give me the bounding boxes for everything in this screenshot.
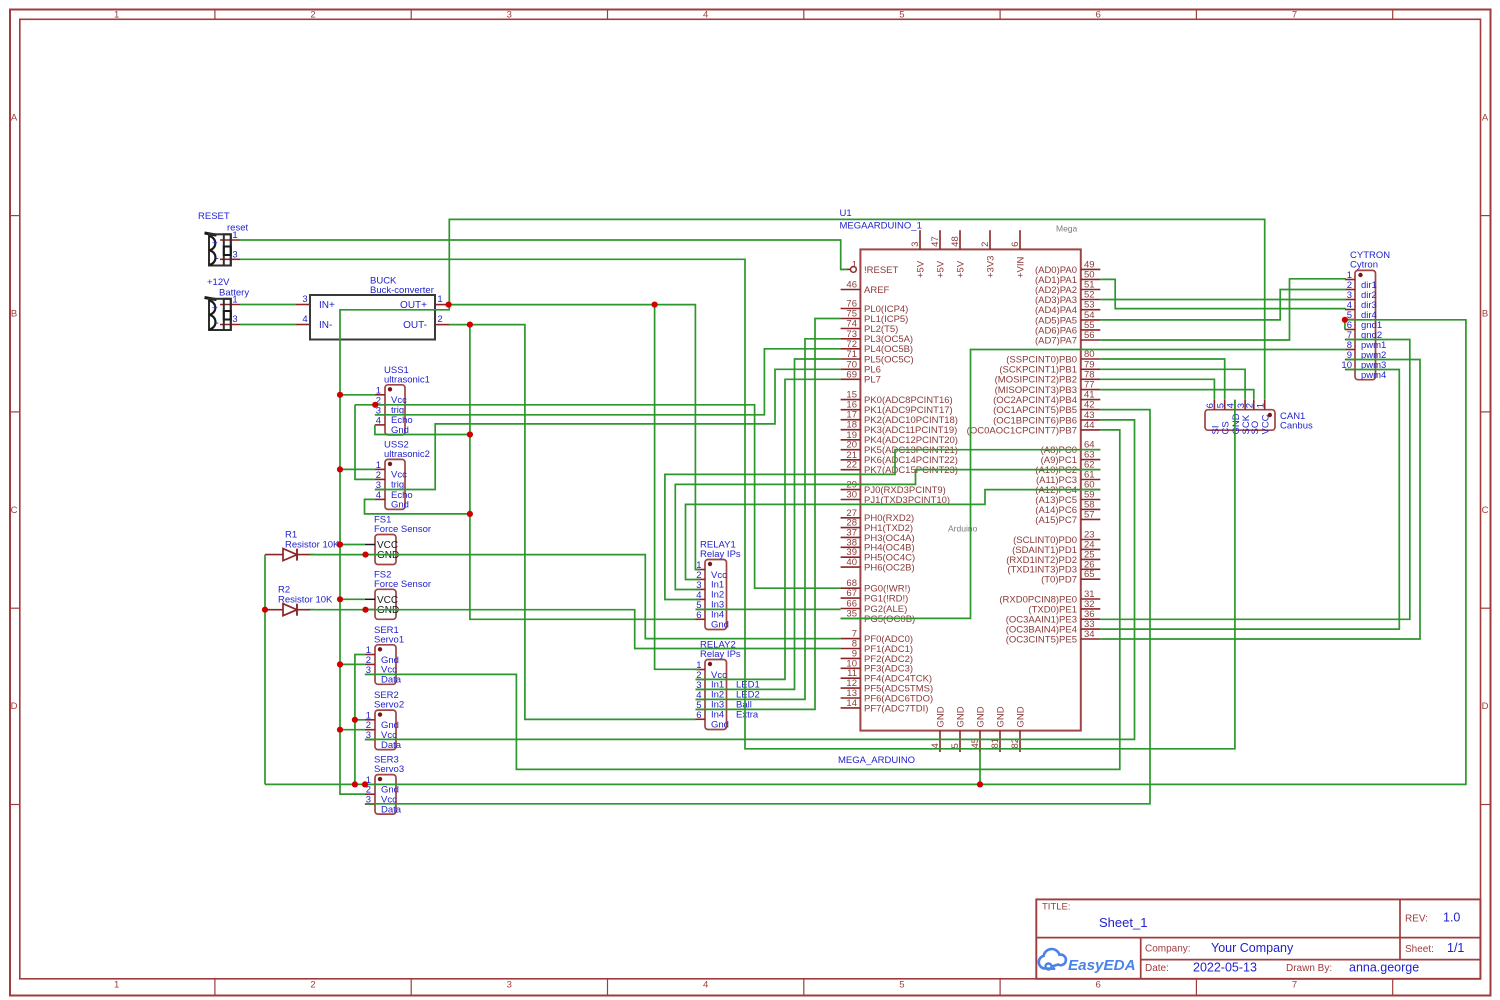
svg-text:48: 48 bbox=[950, 236, 961, 247]
svg-text:+5V: +5V bbox=[915, 260, 926, 278]
svg-text:Data: Data bbox=[381, 804, 402, 815]
svg-text:OUT-: OUT- bbox=[403, 320, 427, 331]
svg-text:Gnd: Gnd bbox=[711, 720, 729, 731]
svg-text:B: B bbox=[11, 309, 17, 320]
wire RELAY2 In4 to PL1 bbox=[696, 319, 841, 710]
svg-text:IN-: IN- bbox=[319, 320, 332, 331]
wire Battery pin1 to BUCK IN+ bbox=[240, 304, 296, 306]
svg-text:Force Sensor: Force Sensor bbox=[374, 579, 431, 590]
svg-text:GND: GND bbox=[935, 706, 946, 727]
wire gnd1 to gnd2 link bbox=[1344, 320, 1346, 330]
svg-text:+VIN: +VIN bbox=[1015, 256, 1026, 278]
wire SER2 Gnd stub bbox=[355, 719, 365, 721]
connector CAN1 Canbus bbox=[1205, 400, 1313, 435]
svg-text:5: 5 bbox=[950, 743, 961, 748]
svg-text:6: 6 bbox=[1010, 242, 1021, 247]
svg-text:40: 40 bbox=[846, 557, 857, 568]
wire PG5 net to CYTRON pwm2 bbox=[841, 350, 1346, 619]
svg-text:1: 1 bbox=[437, 294, 442, 305]
wire PA1 to dir4 bbox=[1100, 279, 1346, 308]
EasyEDA logo bbox=[1039, 949, 1136, 974]
svg-text:5: 5 bbox=[899, 10, 904, 21]
U1 right pins bbox=[967, 259, 1101, 645]
svg-text:4: 4 bbox=[302, 314, 307, 325]
wire RELAY1 In1 to A12 PC4 bbox=[686, 490, 1101, 580]
wire RELAY2 In2 to PL5 bbox=[696, 359, 841, 689]
svg-text:57: 57 bbox=[1084, 509, 1095, 520]
wire PB1 to CAN SCK bbox=[1100, 369, 1245, 400]
svg-text:Mega: Mega bbox=[1056, 224, 1078, 234]
svg-text:Extra: Extra bbox=[736, 710, 759, 721]
wire SER3 Data to PB5 bbox=[365, 410, 1150, 804]
connector FS1 Force Sensor bbox=[365, 515, 431, 565]
wire Battery pin3 to BUCK IN- bbox=[240, 324, 296, 326]
wire RESET pin3 to GND82/CAN GND rail bbox=[240, 259, 1235, 749]
wire RESET pin1 to MEGA !RESET bbox=[240, 240, 847, 269]
wire USS2 Gnd to gnd rail bbox=[365, 499, 470, 514]
svg-text:GND: GND bbox=[1015, 706, 1026, 727]
svg-text:IN+: IN+ bbox=[319, 300, 335, 311]
connector SER3 Servo3 bbox=[365, 755, 404, 816]
resistor R2 (diode symbol) Resistor 10K bbox=[265, 585, 333, 616]
svg-text:B: B bbox=[1482, 309, 1488, 320]
ic U1 MEGAARDUINO_1 (ATmega2560 board) bbox=[838, 208, 1081, 766]
wire RELAY2 In3 to PL3 bbox=[696, 339, 841, 700]
svg-text:+5V: +5V bbox=[955, 260, 966, 278]
U1 left pins bbox=[841, 259, 958, 714]
svg-text:Drawn By:: Drawn By: bbox=[1286, 963, 1332, 974]
svg-text:2: 2 bbox=[310, 980, 315, 991]
wire RELAY1 In4 to PG2 bbox=[696, 608, 841, 610]
svg-text:Arduino: Arduino bbox=[948, 524, 978, 534]
svg-text:C: C bbox=[11, 505, 18, 516]
svg-text:D: D bbox=[11, 701, 18, 712]
module BUCK Buck-converter bbox=[296, 276, 449, 340]
wire PA3 to dir3 bbox=[1100, 299, 1346, 301]
wire PE5 to pwm3 bbox=[1100, 360, 1420, 640]
svg-text:Servo3: Servo3 bbox=[374, 764, 404, 775]
svg-text:69: 69 bbox=[846, 369, 857, 380]
U1 bottom GND pins bbox=[930, 706, 1026, 752]
svg-text:RESET: RESET bbox=[198, 211, 230, 222]
resistor R1 (diode symbol) Resistor 10K bbox=[265, 530, 340, 561]
svg-text:C: C bbox=[1482, 505, 1489, 516]
wire USS1 trig net to PG0 bbox=[355, 405, 841, 588]
svg-text:D: D bbox=[1482, 701, 1489, 712]
svg-text:VCC: VCC bbox=[1261, 414, 1272, 434]
wire SER3 Vcc stub bbox=[340, 793, 365, 795]
svg-text:4: 4 bbox=[703, 10, 708, 21]
wire PB2 to CAN SI bbox=[1100, 379, 1214, 400]
svg-text:EasyEDA: EasyEDA bbox=[1068, 957, 1136, 974]
wire SER1 Vcc stub bbox=[340, 663, 365, 665]
connector RESET (reset) bbox=[198, 211, 248, 266]
svg-text:GND: GND bbox=[975, 706, 986, 727]
wire PE3 to pwm1 bbox=[1100, 340, 1410, 620]
svg-text:3: 3 bbox=[507, 980, 512, 991]
svg-text:4: 4 bbox=[376, 490, 381, 501]
svg-text:U1: U1 bbox=[840, 208, 852, 219]
svg-text:1: 1 bbox=[114, 10, 119, 21]
svg-text:(AD7)PA7: (AD7)PA7 bbox=[1035, 335, 1077, 346]
wire RELAY2 In1 to PL1... In1-PL7 bbox=[696, 379, 841, 679]
wire OUT- to gnd branch RELAY1 Gnd bbox=[449, 325, 696, 620]
svg-text:2: 2 bbox=[437, 314, 442, 325]
connector RELAY2 Relay IPs bbox=[696, 640, 760, 731]
svg-text:ultrasonic2: ultrasonic2 bbox=[384, 449, 430, 460]
svg-text:AREF: AREF bbox=[864, 285, 890, 296]
svg-text:44: 44 bbox=[1084, 420, 1095, 431]
svg-text:2: 2 bbox=[1245, 403, 1256, 408]
U1 top power pins bbox=[910, 230, 1026, 278]
svg-text:34: 34 bbox=[1084, 629, 1095, 640]
svg-text:Canbus: Canbus bbox=[1280, 421, 1313, 432]
svg-text:A: A bbox=[11, 112, 18, 123]
title block bbox=[1036, 899, 1480, 978]
svg-text:2: 2 bbox=[980, 242, 991, 247]
connector USS2 ultrasonic2 bbox=[375, 439, 430, 510]
connector FS2 Force Sensor bbox=[365, 569, 431, 619]
svg-text:14: 14 bbox=[846, 698, 857, 709]
wire FS1 VCC stub bbox=[340, 544, 365, 546]
svg-text:reset: reset bbox=[227, 223, 248, 234]
svg-text:GND: GND bbox=[995, 706, 1006, 727]
wire USS1 Gnd to gnd rail bbox=[375, 425, 470, 435]
svg-text:3: 3 bbox=[507, 10, 512, 21]
svg-text:3: 3 bbox=[302, 294, 307, 305]
svg-text:PF7(ADC7TDI): PF7(ADC7TDI) bbox=[864, 703, 928, 714]
svg-text:7: 7 bbox=[1292, 980, 1297, 991]
svg-text:+5V: +5V bbox=[935, 260, 946, 278]
svg-text:1: 1 bbox=[1256, 403, 1267, 408]
svg-text:3: 3 bbox=[910, 242, 921, 247]
connector USS1 ultrasonic1 bbox=[375, 365, 430, 436]
svg-text:GND: GND bbox=[377, 550, 399, 561]
wire GND45 stub to rail bbox=[979, 752, 981, 784]
svg-text:(T0)PD7: (T0)PD7 bbox=[1041, 575, 1077, 586]
svg-text:4: 4 bbox=[703, 980, 708, 991]
svg-text:(OC0AOC1CPCINT7)PB7: (OC0AOC1CPCINT7)PB7 bbox=[967, 425, 1077, 436]
connector CYTRON Cytron bbox=[1341, 250, 1390, 381]
svg-text:Gnd: Gnd bbox=[711, 620, 729, 631]
svg-text:Your Company: Your Company bbox=[1211, 941, 1294, 955]
svg-text:7: 7 bbox=[1292, 10, 1297, 21]
wire USS1/USS2 trig link bbox=[355, 405, 375, 480]
svg-text:Gnd: Gnd bbox=[391, 500, 409, 511]
svg-text:PG1(!RD!): PG1(!RD!) bbox=[864, 594, 908, 605]
svg-text:Date:: Date: bbox=[1145, 963, 1169, 974]
svg-text:SO: SO bbox=[1250, 421, 1261, 435]
wire USS2 Vcc stub bbox=[340, 468, 375, 470]
svg-text:1: 1 bbox=[232, 295, 237, 306]
svg-text:PG5(OC0B): PG5(OC0B) bbox=[864, 614, 915, 625]
svg-text:4: 4 bbox=[930, 743, 941, 748]
svg-text:56: 56 bbox=[1084, 330, 1095, 341]
border column numbers bbox=[114, 10, 1297, 991]
wire USS1 Vcc stub bbox=[340, 394, 375, 396]
svg-text:65: 65 bbox=[1084, 569, 1095, 580]
svg-text:Relay IPs: Relay IPs bbox=[700, 649, 741, 660]
border row letters bbox=[11, 112, 1489, 712]
svg-text:PL7: PL7 bbox=[864, 375, 881, 386]
wire +5V top rail OUT+ to CAN1 VCC bbox=[449, 219, 1264, 399]
wire RELAY1 In2 to A10 PC2 bbox=[675, 470, 1100, 590]
svg-text:1: 1 bbox=[852, 259, 857, 270]
svg-text:ultrasonic1: ultrasonic1 bbox=[384, 374, 430, 385]
svg-text:Sheet_1: Sheet_1 bbox=[1099, 915, 1147, 930]
svg-text:-: - bbox=[215, 317, 219, 329]
wire USS2 Echo net to PL6 bbox=[375, 369, 841, 489]
svg-text:MEGA_ARDUINO: MEGA_ARDUINO bbox=[838, 755, 915, 766]
wire SER1 Data to PB7 bbox=[365, 430, 1120, 770]
svg-text:22: 22 bbox=[846, 460, 857, 471]
svg-text:A: A bbox=[1482, 112, 1489, 123]
svg-text:1.0: 1.0 bbox=[1443, 911, 1460, 925]
wire PB3 to CAN SO bbox=[1100, 390, 1254, 400]
svg-text:6: 6 bbox=[1096, 980, 1101, 991]
wire OUT+ branch to Vcc rail bbox=[340, 305, 449, 795]
svg-text:REV:: REV: bbox=[1405, 914, 1428, 925]
svg-text:30: 30 bbox=[846, 490, 857, 501]
svg-text:+: + bbox=[212, 302, 218, 314]
svg-text:(A15)PC7: (A15)PC7 bbox=[1035, 515, 1077, 526]
svg-text:2022-05-13: 2022-05-13 bbox=[1193, 961, 1257, 975]
svg-text:4: 4 bbox=[376, 415, 381, 426]
wire RELAY1 In3 to A8 PC0 bbox=[665, 450, 1100, 600]
svg-text:6: 6 bbox=[696, 710, 701, 721]
connector SER1 Servo1 bbox=[365, 625, 404, 686]
svg-text:3: 3 bbox=[232, 314, 237, 325]
wire PE4 to pwm4 bbox=[1100, 370, 1399, 630]
svg-text:Resistor 10K: Resistor 10K bbox=[278, 595, 333, 606]
svg-text:6: 6 bbox=[1096, 10, 1101, 21]
wire PA7 to dir1 bbox=[1100, 279, 1346, 340]
svg-text:Force Sensor: Force Sensor bbox=[374, 524, 431, 535]
wire USS1 Echo net to PL4 bbox=[375, 349, 841, 415]
svg-text:+3V3: +3V3 bbox=[985, 256, 996, 278]
wire R2/FS2 GND net to PF1 bbox=[310, 610, 841, 649]
svg-text:-: - bbox=[215, 253, 219, 265]
svg-text:!RESET: !RESET bbox=[864, 265, 899, 276]
svg-text:Company:: Company: bbox=[1145, 944, 1191, 955]
svg-text:67: 67 bbox=[846, 588, 857, 599]
svg-text:pwm4: pwm4 bbox=[1361, 370, 1386, 381]
svg-text:Servo2: Servo2 bbox=[374, 700, 404, 711]
svg-text:3: 3 bbox=[232, 250, 237, 261]
svg-text:Sheet:: Sheet: bbox=[1405, 944, 1434, 955]
connector +12V Battery bbox=[205, 277, 250, 330]
wire OUT- branch to RELAY2 Gnd bbox=[470, 325, 696, 720]
svg-text:+12V: +12V bbox=[207, 277, 230, 288]
svg-text:Resistor 10K: Resistor 10K bbox=[285, 540, 340, 551]
wire PA5 to dir2 bbox=[1100, 290, 1346, 320]
svg-text:Cytron: Cytron bbox=[1350, 260, 1378, 271]
svg-text:Servo1: Servo1 bbox=[374, 634, 404, 645]
connector RELAY1 Relay IPs bbox=[696, 540, 741, 631]
svg-text:1: 1 bbox=[114, 980, 119, 991]
svg-text:6: 6 bbox=[696, 610, 701, 621]
svg-text:(OC3CINT5)PE5: (OC3CINT5)PE5 bbox=[1006, 634, 1077, 645]
svg-text:GND: GND bbox=[955, 706, 966, 727]
svg-text:PH6(OC2B): PH6(OC2B) bbox=[864, 563, 915, 574]
svg-text:1/1: 1/1 bbox=[1447, 941, 1464, 955]
connector SER2 Servo2 bbox=[365, 690, 404, 751]
wire PB0 to CAN CS bbox=[1100, 359, 1224, 400]
svg-text:47: 47 bbox=[930, 236, 941, 247]
wire R1 left to rail bbox=[264, 555, 266, 785]
wire SER1 Gnd chain bbox=[355, 655, 365, 785]
svg-text:+: + bbox=[212, 238, 218, 250]
svg-text:Relay IPs: Relay IPs bbox=[700, 549, 741, 560]
svg-text:2: 2 bbox=[310, 10, 315, 21]
wire SER2 Data to PB6 bbox=[365, 420, 1135, 740]
wire FS2 VCC stub bbox=[340, 598, 365, 600]
svg-text:anna.george: anna.george bbox=[1349, 961, 1419, 975]
svg-text:MEGAARDUINO_1: MEGAARDUINO_1 bbox=[840, 221, 922, 232]
wire OUT+ rail to RELAY1 Vcc bbox=[449, 305, 700, 570]
svg-text:Data: Data bbox=[381, 675, 402, 686]
svg-text:5: 5 bbox=[899, 980, 904, 991]
svg-text:TITLE:: TITLE: bbox=[1042, 902, 1071, 913]
wire SER2 Vcc stub bbox=[340, 729, 365, 731]
svg-text:1: 1 bbox=[232, 230, 237, 241]
svg-text:Data: Data bbox=[381, 740, 402, 751]
svg-text:Buck-converter: Buck-converter bbox=[370, 285, 434, 296]
wire ground rail bottom bbox=[265, 320, 1466, 785]
svg-text:46: 46 bbox=[846, 280, 857, 291]
wire R1/FS1 GND net to PF0 bbox=[310, 555, 841, 639]
wire OUT+ branch to RELAY2 Vcc bbox=[655, 305, 700, 670]
